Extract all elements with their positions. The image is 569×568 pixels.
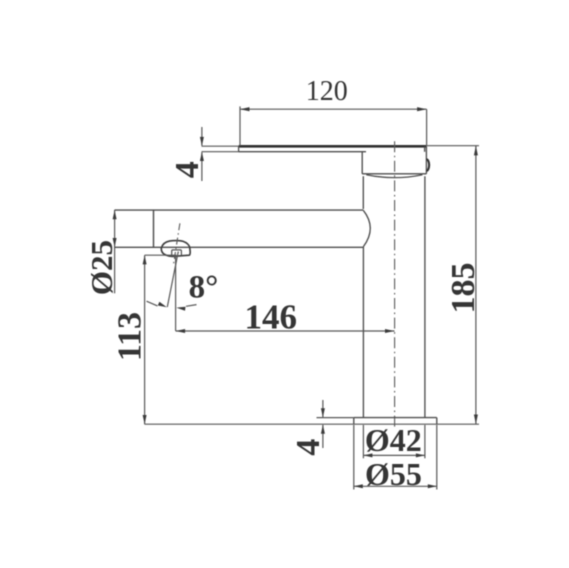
faucet body column — [363, 176, 425, 417]
angle 8 deg annotation — [147, 252, 219, 331]
aerator / outlet tip under spout — [161, 241, 190, 257]
svg-text:4: 4 — [169, 161, 206, 178]
dimension diameter 55 (base) — [354, 425, 437, 492]
dimension diameter 25 (spout tube) — [84, 210, 119, 295]
dimension 113 (spout outlet height) — [112, 255, 177, 424]
base bottom edge with extension lines both sides — [145, 423, 479, 425]
aerator axis centerline (tilted 8 deg, dash-dot) — [173, 223, 180, 264]
svg-text:4: 4 — [290, 439, 327, 456]
dimension 185 (total height) — [426, 146, 481, 425]
svg-text:120: 120 — [306, 76, 348, 107]
dimension diameter 42 (column) — [363, 422, 425, 459]
svg-text:113: 113 — [112, 312, 149, 361]
handle pivot bump on right of cap — [426, 159, 429, 171]
svg-text:146: 146 — [245, 298, 298, 337]
horizontal spout tube — [115, 210, 364, 247]
svg-text:185: 185 — [445, 263, 482, 314]
dimension 4 (base plate thickness) — [290, 400, 354, 456]
dimension 4 (handle plate thickness) — [169, 127, 238, 181]
svg-text:8°: 8° — [189, 270, 219, 306]
svg-text:Ø42: Ø42 — [365, 422, 422, 458]
svg-text:Ø25: Ø25 — [84, 240, 119, 295]
mounting base flange — [354, 418, 437, 425]
faucet handle lever (top bar) — [238, 146, 426, 152]
dimension 120 (handle length) — [240, 76, 427, 146]
cartridge cap under handle — [362, 146, 426, 177]
centerline of column (dash-dot) — [394, 141, 396, 428]
dimension 146 (spout reach) — [176, 298, 395, 337]
svg-text:Ø55: Ø55 — [365, 456, 422, 492]
